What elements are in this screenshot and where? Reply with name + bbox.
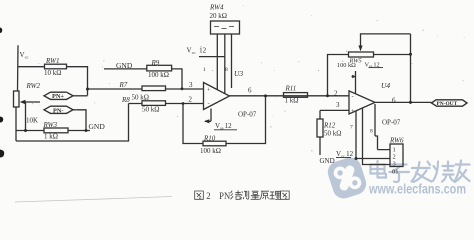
svg-text:-: - — [208, 100, 210, 107]
svg-text:2: 2 — [189, 95, 193, 103]
svg-text:1: 1 — [203, 67, 206, 73]
svg-text:100 kΩ: 100 kΩ — [148, 71, 169, 79]
svg-text:1 kΩ: 1 kΩ — [44, 132, 58, 140]
svg-text:50 kΩ: 50 kΩ — [324, 130, 341, 138]
svg-text:U4: U4 — [381, 81, 390, 90]
svg-text:3: 3 — [189, 81, 193, 89]
svg-text:PN-: PN- — [53, 107, 64, 114]
svg-text:3: 3 — [393, 161, 396, 168]
svg-text:01: 01 — [392, 169, 399, 176]
svg-text:RW3: RW3 — [43, 121, 58, 129]
svg-text:100 kΩ: 100 kΩ — [337, 62, 356, 69]
svg-text:R10: R10 — [203, 135, 216, 143]
svg-text:GND: GND — [89, 122, 106, 131]
svg-text:10K: 10K — [26, 116, 38, 124]
svg-text:2: 2 — [334, 90, 338, 98]
svg-text:GND: GND — [116, 61, 133, 70]
svg-text:2: 2 — [393, 154, 396, 161]
svg-text:R9: R9 — [151, 59, 160, 67]
svg-text:OP-07: OP-07 — [238, 111, 257, 119]
svg-text:10 kΩ: 10 kΩ — [44, 69, 61, 77]
svg-text:7: 7 — [350, 125, 353, 131]
svg-text:R12: R12 — [323, 122, 336, 130]
svg-text:50 kΩ: 50 kΩ — [132, 94, 149, 102]
svg-text:RW4: RW4 — [209, 4, 224, 12]
svg-text:PN+: PN+ — [52, 93, 64, 100]
svg-text:1 kΩ: 1 kΩ — [285, 97, 299, 105]
svg-text:100 kΩ: 100 kΩ — [200, 147, 221, 155]
svg-text:RW6: RW6 — [389, 137, 404, 145]
svg-text:+: + — [207, 86, 211, 93]
svg-text:PN-OUT: PN-OUT — [437, 101, 458, 107]
svg-text:8: 8 — [370, 129, 373, 135]
svg-text:20 kΩ: 20 kΩ — [210, 12, 227, 20]
svg-text:3: 3 — [336, 101, 340, 109]
svg-text:2: 2 — [206, 191, 210, 201]
svg-text:R7: R7 — [119, 81, 128, 89]
svg-text:OP-07: OP-07 — [382, 119, 401, 127]
svg-text:R8: R8 — [121, 96, 130, 104]
svg-text:www.elecfans.com: www.elecfans.com — [368, 180, 466, 196]
svg-text:6: 6 — [392, 97, 396, 105]
svg-text:50 kΩ: 50 kΩ — [142, 106, 159, 114]
svg-text:U3: U3 — [234, 69, 243, 78]
svg-text:-: - — [352, 93, 354, 100]
svg-text:RW1: RW1 — [45, 57, 59, 65]
svg-text:GND: GND — [320, 157, 335, 165]
svg-text:PN: PN — [219, 191, 231, 201]
svg-text:6: 6 — [248, 87, 252, 95]
svg-text:1: 1 — [393, 147, 396, 154]
svg-text:+: + — [351, 108, 355, 115]
svg-text:R11: R11 — [285, 84, 297, 92]
svg-text:RW2: RW2 — [26, 82, 41, 90]
svg-text:8: 8 — [225, 67, 228, 73]
